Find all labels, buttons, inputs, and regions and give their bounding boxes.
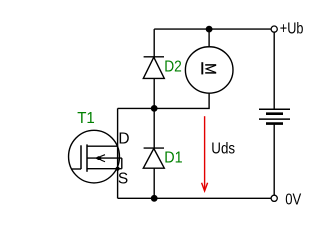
svg-text:D: D [118,130,129,147]
node junction top (motor/+Ub) [206,26,213,33]
transistor T1 body-source tie [121,158,123,169]
wire battery top lead [273,32,275,109]
wire D2 branch vertical [153,29,155,108]
transistor T1 source stub [87,168,122,170]
battery B1 [259,109,290,123]
svg-text:+Ub: +Ub [280,21,304,38]
motor M glyph (rotated M with underline) [202,62,216,74]
transistor T1 body arrow [95,155,105,162]
wire top rail (+Ub) [154,28,271,30]
svg-text:0V: 0V [285,192,302,209]
wire drain-source vertical [117,108,119,198]
wire middle rail [118,94,210,109]
wire battery bottom lead [273,124,275,196]
diode D2 [143,57,164,79]
terminal +Ub [271,26,277,32]
svg-text:D1: D1 [164,150,182,167]
wire D1 branch vertical [153,108,155,198]
svg-text:D2: D2 [164,58,182,75]
transistor T1 channel bar [86,144,88,171]
svg-text:T1: T1 [77,110,95,127]
node junction bottom (D1/0V) [151,195,158,202]
diode D1 [143,148,164,168]
transistor T1 gate lead [71,168,81,170]
transistor T1 MOSFET circle [69,130,120,183]
node source junction [116,167,120,171]
node junction middle (D1/D2) [151,105,158,112]
arrow Uds (red) [202,116,208,191]
svg-text:Uds: Uds [211,140,235,157]
transistor T1 gate bar [80,145,82,169]
motor M1 circle [185,47,233,93]
svg-text:S: S [118,171,128,188]
transistor T1 drain stub [87,145,118,147]
wire bottom rail (0V) [118,197,272,199]
transistor T1 body stub [87,157,122,159]
wire motor top lead [208,29,210,46]
terminal 0V [271,195,277,201]
